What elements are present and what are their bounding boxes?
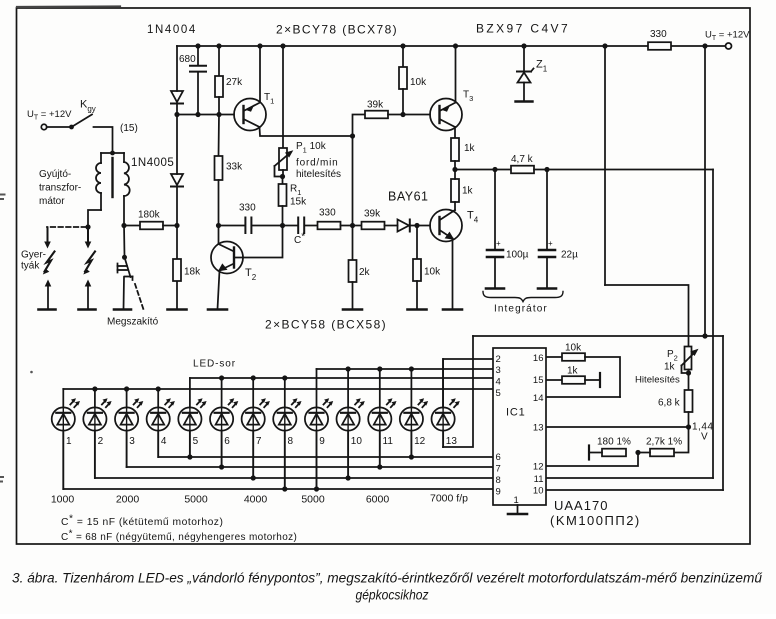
breaker contact (megszakító): [118, 224, 145, 311]
svg-text:16: 16: [533, 353, 544, 364]
label Z1: [536, 59, 548, 74]
LED D11: [368, 369, 396, 467]
svg-text:2,7k 1%: 2,7k 1%: [646, 437, 682, 448]
resistor 1k (T3 collector): [451, 127, 459, 172]
ground IC1 pin1: [508, 505, 527, 514]
wire 39k to T3 base: [403, 114, 430, 116]
label UT=+12V right: [705, 30, 750, 43]
label Gyujto-transzfor-mator: [39, 169, 81, 207]
svg-text:tyák: tyák: [21, 261, 40, 272]
svg-text:3: 3: [129, 436, 135, 447]
capacitor 330 (left): [245, 218, 251, 234]
wire pin14 line: [546, 396, 620, 398]
wire integrator line y169: [455, 167, 511, 172]
svg-text:1: 1: [66, 436, 72, 447]
wire LED anode bus pin3 row y369: [317, 366, 494, 371]
wire +12V rail top: [177, 45, 725, 47]
label 1N4005: [131, 157, 174, 169]
svg-text:5000: 5000: [301, 494, 325, 506]
label T1: [264, 92, 274, 106]
pin number IC1 pin 1: [514, 495, 519, 506]
svg-text:22µ: 22µ: [561, 250, 578, 261]
resistor 180 1%: [589, 446, 626, 460]
transistor T3: [430, 99, 462, 131]
wire 6.8k node down to 2.7k: [674, 427, 689, 453]
transistor T2: [211, 226, 243, 274]
label 1k T3: [464, 143, 476, 154]
wire supply column x605 to P2: [605, 46, 689, 346]
label 27k: [226, 77, 243, 88]
label P1 10k / ford/min / hitelesites: [296, 141, 341, 180]
svg-text:1N4004: 1N4004: [147, 24, 197, 36]
node label 1,44V: [692, 422, 713, 443]
label Kgy: [80, 99, 96, 114]
svg-text:2k: 2k: [359, 267, 371, 278]
LED D10: [337, 369, 365, 478]
wire LED13 anode pin2 row y359: [443, 359, 493, 408]
svg-text:6: 6: [496, 452, 501, 463]
label BZX97 C4V7: [476, 22, 570, 36]
svg-text:6000: 6000: [366, 494, 390, 506]
pin numbers IC1 left: [496, 354, 501, 498]
diode 1N4005: [171, 174, 183, 187]
transistor T1: [234, 99, 266, 131]
LED D12: [400, 369, 428, 457]
label 22u: [548, 239, 578, 261]
op-amp IC1 UAA170 box: [493, 348, 546, 505]
ground breaker: [114, 308, 131, 311]
wire T2 collector up to R1 node: [243, 228, 283, 258]
svg-text:7: 7: [256, 436, 262, 447]
label T4: [467, 210, 479, 225]
resistor 2k: [349, 226, 357, 310]
svg-text:39k: 39k: [367, 100, 384, 111]
label Integrator: [494, 304, 548, 315]
resistor 180k: [140, 222, 163, 230]
wire pin10 column x723: [722, 336, 724, 490]
resistor 39k (lower): [353, 222, 398, 230]
svg-text:9: 9: [319, 436, 325, 447]
capacitor 680 column: [190, 43, 206, 117]
resistor 10k (pin16-14): [546, 353, 620, 397]
label C*: [294, 232, 305, 247]
svg-text:Hitelesítés: Hitelesítés: [635, 375, 680, 386]
label 2k: [359, 267, 371, 278]
svg-text:1k: 1k: [464, 143, 476, 154]
label 39k upper: [367, 100, 384, 111]
svg-text:Gyújtó-: Gyújtó-: [39, 169, 71, 180]
LED D5: [178, 378, 206, 457]
ground spark plug 2: [79, 308, 96, 311]
svg-text:5: 5: [496, 388, 501, 399]
label BAY61: [388, 190, 429, 204]
wire pin12 line: [546, 453, 638, 467]
label 180 1%: [597, 437, 631, 448]
label 18k: [184, 267, 201, 278]
node UT=+12V terminal top right: [726, 43, 732, 49]
svg-text:680: 680: [179, 54, 196, 65]
svg-text:5000: 5000: [184, 494, 208, 506]
ground 10k: [408, 308, 427, 311]
label 1N4004: [147, 24, 197, 36]
svg-text:12: 12: [414, 436, 426, 447]
wire LED cathode bus pin7 row y467: [127, 464, 493, 469]
svg-text:+: +: [496, 239, 501, 248]
diode 1N4004: [171, 91, 183, 104]
resistor 330 (top right): [602, 42, 707, 50]
svg-text:4000: 4000: [244, 494, 268, 506]
LED D7: [242, 378, 270, 478]
capacitor C*: [283, 218, 305, 234]
wire timing line y225 left: [219, 225, 245, 227]
label 330 top right: [650, 29, 667, 40]
svg-text:180 1%: 180 1%: [597, 437, 631, 448]
svg-text:13: 13: [533, 423, 544, 434]
label 330 series: [319, 208, 336, 219]
label 2xBCY58 (BCX58): [265, 318, 387, 332]
svg-text:LED-sor: LED-sor: [193, 359, 236, 370]
LED D2: [83, 389, 111, 478]
resistor 27k: [215, 43, 223, 117]
label 680: [179, 54, 196, 65]
LED D13: [432, 359, 460, 447]
svg-text:hitelesítés: hitelesítés: [296, 169, 341, 180]
svg-text:IC1: IC1: [506, 407, 526, 419]
wire T3 emitter to rail: [453, 43, 458, 102]
label LED-sor: [193, 359, 236, 370]
LED D9: [305, 369, 333, 489]
resistor 1k (T4 collector): [451, 170, 459, 211]
label 10k pin16: [565, 343, 582, 354]
wire LED anode bus pin5 row y389: [63, 386, 493, 391]
label Hitelesites: [635, 375, 680, 386]
svg-text:UAA170: UAA170: [554, 498, 608, 513]
svg-text:39k: 39k: [364, 209, 381, 220]
wire cap330 to P1/R1 node: [253, 225, 283, 227]
LED D4: [147, 389, 175, 457]
label 1k P2: [664, 362, 676, 373]
svg-text:2: 2: [98, 436, 104, 447]
scan artifacts left edge: [0, 195, 33, 482]
svg-text:1N4005: 1N4005: [131, 157, 174, 169]
svg-text:330: 330: [650, 29, 667, 40]
svg-text:7: 7: [496, 464, 501, 475]
svg-text:1k: 1k: [664, 362, 676, 373]
label P2: [667, 349, 678, 363]
svg-text:BAY61: BAY61: [388, 190, 429, 204]
wire T1 base line y114: [177, 114, 234, 116]
svg-text:(KM100ПП2): (KM100ПП2): [550, 513, 641, 528]
LED D8: [273, 378, 301, 489]
label C* note 15nF: [61, 514, 223, 529]
svg-text:330: 330: [319, 208, 336, 219]
svg-text:4: 4: [496, 377, 501, 388]
potentiometer P1 10k: [275, 148, 294, 179]
resistor 10k (T3 base): [399, 43, 407, 114]
svg-text:10: 10: [351, 436, 363, 447]
svg-text:1k: 1k: [567, 366, 579, 377]
wire LED13 cathode route to y336: [443, 336, 473, 447]
svg-text:13: 13: [446, 436, 458, 447]
label (15): [120, 123, 138, 134]
svg-text:10k: 10k: [410, 77, 427, 88]
svg-text:9: 9: [496, 487, 501, 498]
svg-text:8: 8: [288, 436, 294, 447]
wire pin11 line: [546, 477, 713, 479]
wire 180k to diode column: [163, 225, 176, 227]
label T2: [245, 267, 257, 282]
wire T1 emitter to rail: [257, 43, 262, 102]
svg-text:(15): (15): [120, 123, 138, 134]
label 2,7k 1%: [646, 437, 682, 448]
label 180k: [138, 210, 161, 221]
svg-text:100µ: 100µ: [506, 250, 529, 261]
zener Z1: [516, 43, 534, 101]
wire LED13 bus over IC y336: [473, 335, 723, 337]
svg-text:BZX97 C4V7: BZX97 C4V7: [476, 22, 570, 36]
label Megszakito: [107, 317, 159, 328]
svg-text:1: 1: [514, 495, 519, 506]
label 330 cap: [239, 203, 256, 214]
svg-text:4: 4: [161, 436, 167, 447]
labels LED numbers 1-13: [66, 436, 457, 447]
svg-text:330: 330: [239, 203, 256, 214]
svg-text:15: 15: [533, 375, 544, 386]
wire pin13 line: [546, 426, 689, 428]
svg-text:10k: 10k: [424, 267, 441, 278]
wire 39k upper feed x352: [353, 115, 366, 226]
svg-text:27k: 27k: [226, 77, 243, 88]
svg-text:1k: 1k: [462, 186, 474, 197]
ground spark plug 1: [39, 308, 56, 311]
label IC1: [506, 407, 526, 419]
wire transformer left leg down: [85, 210, 101, 230]
wire LED anode bus pin4 row y378: [190, 375, 493, 380]
transistor T4: [430, 210, 462, 242]
svg-text:11: 11: [383, 436, 394, 447]
resistor 39k (upper): [365, 111, 406, 119]
labels frequency scale: [51, 493, 468, 506]
label 10k T3 base: [410, 77, 427, 88]
LED D1: [52, 389, 80, 489]
switch Kgy: [47, 115, 92, 130]
svg-text:2000: 2000: [116, 494, 140, 506]
wire LED cathode bus pin8 row y478: [95, 475, 493, 480]
transformer T (gyújtótranszformátor): [96, 151, 130, 224]
capacitor 100u: [487, 170, 503, 289]
svg-text:transzfor-: transzfor-: [39, 183, 81, 194]
label 2xBCY78 (BCX78): [276, 23, 398, 37]
resistor 330 (series): [305, 222, 355, 230]
label KM100PP2: [550, 513, 641, 528]
label 4,7k: [511, 154, 534, 165]
resistor 4,7k: [511, 166, 713, 174]
svg-text:Megszakító: Megszakító: [107, 317, 159, 328]
svg-text:6,8 k: 6,8 k: [658, 398, 681, 409]
svg-text:11: 11: [534, 474, 544, 485]
svg-text:8: 8: [496, 475, 501, 486]
label T3: [463, 90, 473, 104]
spark plug 2 (gyertya): [83, 229, 95, 309]
spark plug 1 (gyertya): [43, 228, 55, 309]
svg-text:6: 6: [224, 436, 230, 447]
node UT +12V input terminal (left): [41, 124, 46, 129]
resistor R1 15k: [279, 177, 287, 229]
svg-text:14: 14: [533, 393, 544, 404]
svg-text:4,7 k: 4,7 k: [511, 154, 534, 165]
label 1k T4: [462, 186, 474, 197]
label 39k lower: [364, 209, 381, 220]
wire main diode column x177: [174, 46, 179, 309]
wire BAY61 to T4 base: [417, 225, 430, 227]
svg-text:V: V: [701, 432, 708, 443]
wire T2 emitter to ground: [218, 271, 220, 310]
svg-text:Integrátor: Integrátor: [494, 304, 548, 315]
svg-text:2×BCY78 (BCX78): 2×BCY78 (BCX78): [276, 23, 398, 37]
svg-text:18k: 18k: [184, 267, 201, 278]
label Gyertyak: [21, 250, 46, 272]
svg-text:10k: 10k: [565, 343, 582, 354]
svg-text:1000: 1000: [51, 494, 75, 506]
wire LED cathode bus pin9 row y489: [63, 486, 493, 491]
svg-text:2: 2: [496, 354, 501, 365]
svg-text:2×BCY58 (BCX58): 2×BCY58 (BCX58): [265, 318, 387, 332]
resistor 1k (pin15): [546, 373, 600, 387]
wire T4 emitter to ground: [452, 239, 454, 310]
ground 100u: [486, 287, 504, 290]
label 100u: [496, 239, 529, 261]
ground T2: [208, 308, 227, 311]
label 10k lower: [424, 267, 441, 278]
svg-text:10: 10: [533, 486, 544, 497]
ground 2k: [343, 308, 362, 311]
label UAA170: [554, 498, 608, 513]
svg-text:5: 5: [193, 436, 199, 447]
label 6,8k: [658, 398, 681, 409]
svg-text:15k: 15k: [290, 197, 307, 208]
label 33k: [226, 162, 243, 173]
svg-text:gépkocsikhoz: gépkocsikhoz: [356, 588, 429, 604]
ground T4: [443, 308, 462, 311]
brace integrator: [483, 292, 563, 302]
ground 18k: [168, 308, 187, 311]
LED D3: [115, 389, 143, 467]
label R1 15k: [290, 184, 307, 208]
caption text: [12, 571, 763, 604]
resistor 2,7k 1%: [635, 449, 674, 457]
wire pin10 line: [546, 489, 723, 491]
capacitor 22u: [539, 170, 555, 289]
svg-text:7000 f/p: 7000 f/p: [430, 493, 468, 505]
wire T1 collector to x352: [260, 127, 356, 139]
resistor 10k (below BAY61): [413, 226, 421, 310]
pin numbers IC1 right: [533, 353, 544, 497]
label 1k pin15: [567, 366, 579, 377]
svg-text:180k: 180k: [138, 210, 161, 221]
diode BAY61: [398, 220, 420, 232]
svg-text:3: 3: [496, 365, 501, 376]
wire P1 column from rail: [280, 43, 285, 148]
wire switch to transformer top: [94, 127, 113, 152]
svg-text:Gyer-: Gyer-: [21, 250, 46, 261]
label UT=+12V left: [27, 109, 72, 122]
svg-text:UT = +12V: UT = +12V: [705, 30, 750, 43]
wire transformer right to 180k node: [121, 223, 140, 228]
svg-text:3. ábra. Tizenhárom LED-es „vá: 3. ábra. Tizenhárom LED-es „vándorló fén…: [12, 571, 763, 587]
svg-text:mátor: mátor: [39, 196, 65, 207]
label C* note 68nF: [61, 529, 297, 544]
svg-text:UT = +12V: UT = +12V: [27, 109, 72, 122]
svg-text:ford/min: ford/min: [296, 158, 339, 169]
LED D6: [210, 378, 238, 467]
svg-text:12: 12: [533, 462, 544, 473]
svg-text:33k: 33k: [226, 162, 243, 173]
svg-text:+: +: [548, 239, 553, 248]
wire supply column x705: [702, 46, 707, 339]
potentiometer P2 1k: [682, 347, 699, 376]
resistor 6,8k: [685, 370, 693, 430]
wire dashed to spark plug 1: [47, 226, 86, 228]
resistor 18k: [173, 259, 181, 281]
wire LED cathode bus pin6 row y457: [158, 454, 493, 459]
ground 22u: [538, 287, 556, 290]
resistor 33k: [215, 115, 223, 229]
wire pin11 column x713: [712, 170, 714, 479]
